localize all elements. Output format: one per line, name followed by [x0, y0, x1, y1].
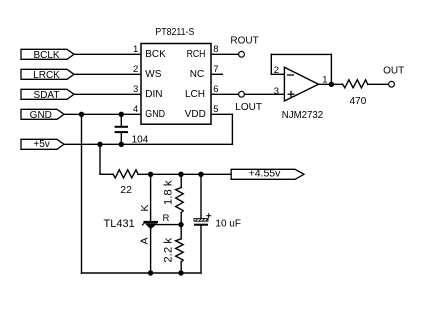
svg-text:OUT: OUT [383, 65, 404, 76]
svg-text:NC: NC [190, 69, 204, 80]
svg-text:RCH: RCH [187, 49, 206, 60]
svg-text:NJM2732: NJM2732 [282, 110, 324, 121]
svg-text:LRCK: LRCK [33, 70, 60, 81]
svg-text:2.2 k: 2.2 k [163, 238, 175, 263]
svg-text:4: 4 [133, 104, 138, 115]
svg-text:10 uF: 10 uF [215, 219, 241, 230]
svg-text:1: 1 [322, 75, 327, 86]
svg-text:3: 3 [274, 86, 279, 97]
svg-text:5: 5 [213, 104, 218, 115]
svg-text:1: 1 [133, 44, 138, 55]
svg-text:DIN: DIN [145, 89, 162, 100]
svg-text:TL431: TL431 [104, 218, 135, 230]
svg-text:VDD: VDD [185, 109, 206, 120]
svg-text:+5v: +5v [33, 139, 49, 150]
svg-text:GND: GND [30, 110, 52, 121]
svg-text:470: 470 [350, 96, 367, 107]
svg-text:GND: GND [145, 109, 165, 120]
svg-text:BCLK: BCLK [33, 50, 59, 61]
svg-text:6: 6 [213, 84, 218, 95]
svg-text:7: 7 [213, 64, 218, 75]
svg-text:8: 8 [213, 44, 218, 55]
svg-text:1.8 k: 1.8 k [163, 180, 175, 205]
svg-text:K: K [139, 204, 151, 211]
svg-text:SDAT: SDAT [34, 90, 60, 101]
svg-text:3: 3 [133, 84, 138, 95]
svg-text:+4.55v: +4.55v [249, 168, 282, 180]
svg-text:A: A [138, 237, 150, 244]
svg-text:LOUT: LOUT [235, 102, 262, 113]
svg-text:WS: WS [145, 69, 161, 80]
svg-text:LCH: LCH [185, 89, 205, 100]
svg-text:2: 2 [133, 64, 138, 75]
svg-text:2: 2 [274, 65, 279, 76]
svg-text:104: 104 [132, 135, 149, 146]
svg-text:ROUT: ROUT [230, 35, 258, 46]
svg-text:R: R [163, 213, 170, 224]
svg-text:BCK: BCK [145, 49, 166, 60]
svg-text:22: 22 [120, 184, 132, 196]
svg-text:PT8211-S: PT8211-S [155, 27, 194, 38]
